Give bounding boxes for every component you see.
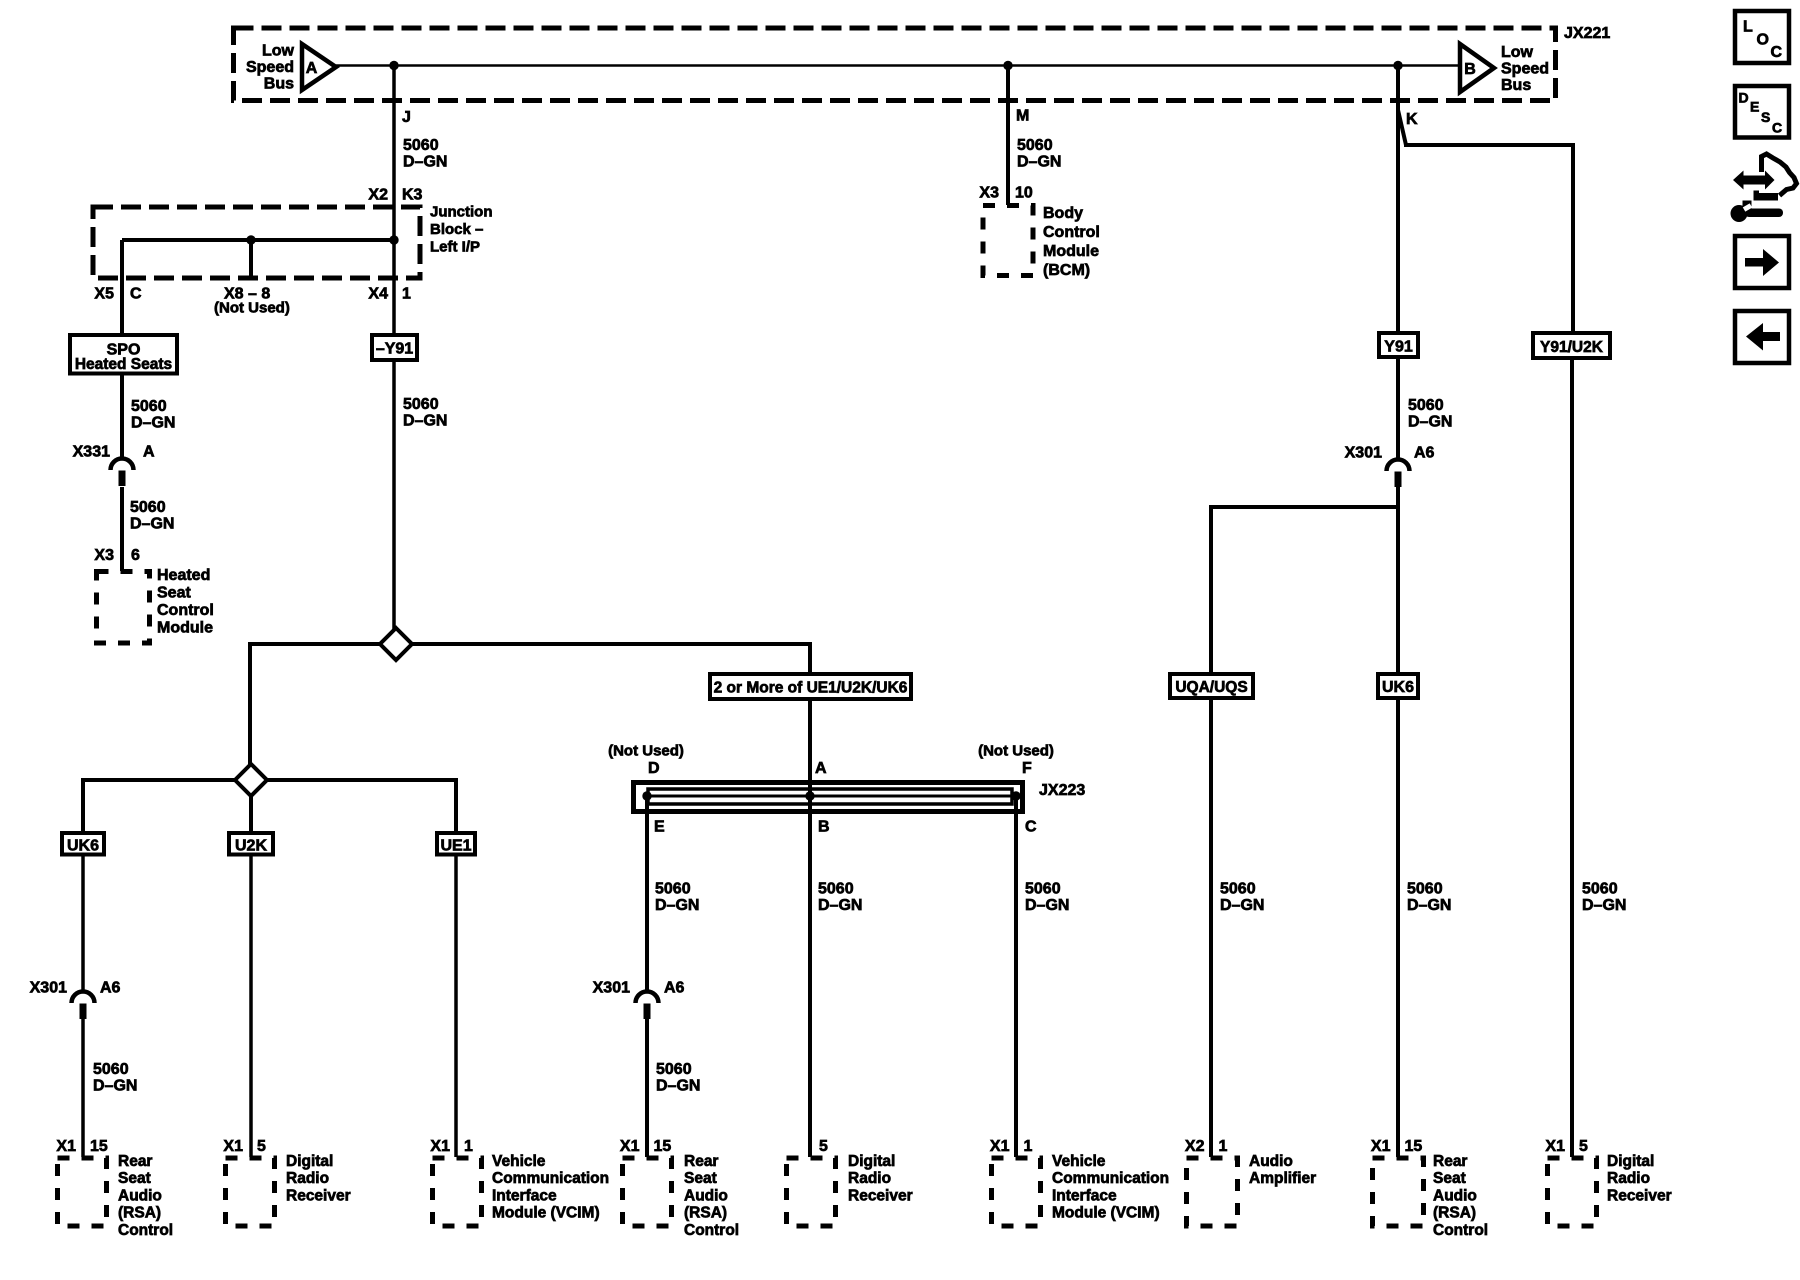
svg-text:5060: 5060 [1025,881,1061,898]
svg-text:(RSA): (RSA) [684,1205,727,1222]
svg-text:Y91: Y91 [1384,339,1413,356]
svg-text:Module (VCIM): Module (VCIM) [1052,1205,1160,1222]
svg-text:JX223: JX223 [1039,782,1085,799]
svg-text:U2K: U2K [235,838,267,855]
svg-text:(RSA): (RSA) [118,1205,161,1222]
svg-text:5: 5 [1579,1138,1588,1155]
svg-text:Control: Control [118,1222,173,1239]
svg-text:Rear: Rear [118,1153,152,1170]
svg-text:X301: X301 [30,980,67,997]
svg-text:Junction: Junction [430,204,493,221]
svg-text:X1: X1 [430,1138,450,1155]
svg-text:Seat: Seat [1433,1170,1466,1187]
svg-text:Bus: Bus [264,76,294,93]
svg-text:X1: X1 [56,1138,76,1155]
svg-text:X1: X1 [1545,1138,1565,1155]
svg-text:D: D [648,760,660,777]
svg-text:Digital: Digital [848,1153,895,1170]
svg-text:A6: A6 [100,980,121,997]
svg-text:K: K [1406,111,1418,128]
svg-text:UE1: UE1 [440,838,471,855]
svg-text:Radio: Radio [1607,1170,1650,1187]
svg-text:C: C [1025,819,1037,836]
svg-text:X3: X3 [979,185,999,202]
svg-text:B: B [1464,61,1476,78]
svg-text:Heated: Heated [157,567,210,584]
svg-text:Block –: Block – [430,221,483,238]
svg-text:X2: X2 [1185,1138,1205,1155]
svg-text:5060: 5060 [1582,881,1618,898]
svg-text:(Not Used): (Not Used) [978,743,1054,760]
svg-text:5: 5 [819,1138,828,1155]
svg-text:Left I/P: Left I/P [430,239,480,256]
svg-text:X3: X3 [94,547,114,564]
svg-text:A: A [306,60,318,77]
svg-text:5060: 5060 [403,396,439,413]
svg-text:Vehicle: Vehicle [1052,1153,1106,1170]
svg-text:S: S [1761,109,1770,125]
svg-text:10: 10 [1015,185,1033,202]
svg-text:D–GN: D–GN [130,516,174,533]
svg-text:C: C [1772,120,1782,136]
svg-text:–Y91: –Y91 [376,341,413,358]
svg-text:X301: X301 [593,980,630,997]
svg-text:Bus: Bus [1501,77,1531,94]
svg-text:L: L [1743,19,1753,36]
svg-text:D–GN: D–GN [1407,897,1451,914]
svg-text:Control: Control [1433,1222,1488,1239]
svg-text:C: C [130,286,142,303]
svg-text:Communication: Communication [492,1170,609,1187]
svg-text:5060: 5060 [1408,397,1444,414]
svg-text:D–GN: D–GN [403,413,447,430]
svg-text:5060: 5060 [93,1061,129,1078]
svg-text:Control: Control [1043,224,1100,241]
svg-text:Speed: Speed [1501,61,1549,78]
svg-text:5060: 5060 [403,137,439,154]
svg-text:D–GN: D–GN [403,154,447,171]
svg-text:Interface: Interface [1052,1187,1117,1204]
svg-text:1: 1 [1024,1138,1033,1155]
svg-text:D–GN: D–GN [1220,897,1264,914]
svg-text:15: 15 [1405,1138,1423,1155]
svg-text:D–GN: D–GN [655,897,699,914]
svg-text:Audio: Audio [1433,1187,1477,1204]
svg-text:Seat: Seat [684,1170,717,1187]
svg-text:5060: 5060 [1220,881,1256,898]
svg-text:1: 1 [1219,1138,1228,1155]
svg-text:D–GN: D–GN [656,1078,700,1095]
svg-text:E: E [654,819,665,836]
svg-text:5060: 5060 [655,881,691,898]
svg-text:A: A [143,444,155,461]
svg-text:(Not Used): (Not Used) [214,300,290,317]
svg-text:UK6: UK6 [1382,679,1414,696]
svg-text:X1: X1 [1371,1138,1391,1155]
svg-text:Communication: Communication [1052,1170,1169,1187]
svg-text:(BCM): (BCM) [1043,262,1090,279]
svg-text:A6: A6 [664,980,685,997]
svg-text:Body: Body [1043,205,1083,222]
svg-text:Rear: Rear [1433,1153,1467,1170]
svg-text:Amplifier: Amplifier [1249,1170,1316,1187]
svg-text:Vehicle: Vehicle [492,1153,546,1170]
svg-text:5060: 5060 [131,398,167,415]
svg-text:D–GN: D–GN [1408,414,1452,431]
svg-text:Heated Seats: Heated Seats [75,356,172,373]
svg-text:(Not Used): (Not Used) [608,743,684,760]
svg-text:Radio: Radio [286,1170,329,1187]
svg-text:Low: Low [1501,44,1534,61]
svg-text:F: F [1022,760,1032,777]
svg-text:15: 15 [654,1138,672,1155]
svg-text:UQA/UQS: UQA/UQS [1175,679,1247,696]
svg-text:X301: X301 [1345,445,1382,462]
svg-text:D–GN: D–GN [818,897,862,914]
svg-text:Radio: Radio [848,1170,891,1187]
svg-text:5060: 5060 [818,881,854,898]
svg-text:5: 5 [257,1138,266,1155]
svg-text:D–GN: D–GN [93,1078,137,1095]
svg-text:K3: K3 [402,187,423,204]
svg-text:(RSA): (RSA) [1433,1205,1476,1222]
svg-text:A6: A6 [1414,445,1435,462]
svg-text:Audio: Audio [1249,1153,1293,1170]
svg-text:E: E [1750,99,1759,115]
svg-text:Speed: Speed [246,59,294,76]
svg-text:Receiver: Receiver [286,1187,351,1204]
svg-text:Module: Module [1043,243,1099,260]
svg-text:Audio: Audio [684,1187,728,1204]
svg-text:Seat: Seat [157,585,191,602]
svg-text:Receiver: Receiver [1607,1187,1672,1204]
svg-text:1: 1 [402,286,411,303]
svg-text:D–GN: D–GN [1025,897,1069,914]
svg-text:5060: 5060 [130,499,166,516]
svg-text:6: 6 [131,547,140,564]
svg-text:B: B [818,819,830,836]
svg-text:Low: Low [262,43,295,60]
svg-text:X5: X5 [94,286,114,303]
svg-text:X4: X4 [368,286,388,303]
svg-text:Module (VCIM): Module (VCIM) [492,1205,600,1222]
svg-text:X331: X331 [73,444,110,461]
svg-text:X1: X1 [990,1138,1010,1155]
svg-text:Digital: Digital [1607,1153,1654,1170]
svg-text:5060: 5060 [1017,137,1053,154]
svg-text:O: O [1757,32,1769,49]
svg-text:JX221: JX221 [1564,25,1610,42]
svg-text:2 or More of UE1/U2K/UK6: 2 or More of UE1/U2K/UK6 [714,680,908,697]
svg-text:D–GN: D–GN [1582,897,1626,914]
svg-text:Interface: Interface [492,1187,557,1204]
svg-text:UK6: UK6 [67,838,99,855]
svg-text:Rear: Rear [684,1153,718,1170]
svg-text:M: M [1016,108,1029,125]
svg-text:Digital: Digital [286,1153,333,1170]
svg-text:X1: X1 [620,1138,640,1155]
svg-text:X1: X1 [223,1138,243,1155]
svg-text:D–GN: D–GN [131,415,175,432]
svg-text:Receiver: Receiver [848,1187,913,1204]
svg-text:Module: Module [157,620,213,637]
svg-text:J: J [402,109,411,126]
svg-text:Audio: Audio [118,1187,162,1204]
svg-text:D–GN: D–GN [1017,154,1061,171]
svg-text:Y91/U2K: Y91/U2K [1540,339,1604,356]
svg-text:D: D [1739,90,1749,106]
svg-text:5060: 5060 [1407,881,1443,898]
svg-text:Control: Control [684,1222,739,1239]
svg-text:A: A [815,760,827,777]
svg-text:15: 15 [90,1138,108,1155]
svg-text:Seat: Seat [118,1170,151,1187]
svg-text:C: C [1771,44,1783,61]
svg-text:X2: X2 [368,187,388,204]
svg-text:5060: 5060 [656,1061,692,1078]
svg-text:Control: Control [157,602,214,619]
svg-text:1: 1 [464,1138,473,1155]
